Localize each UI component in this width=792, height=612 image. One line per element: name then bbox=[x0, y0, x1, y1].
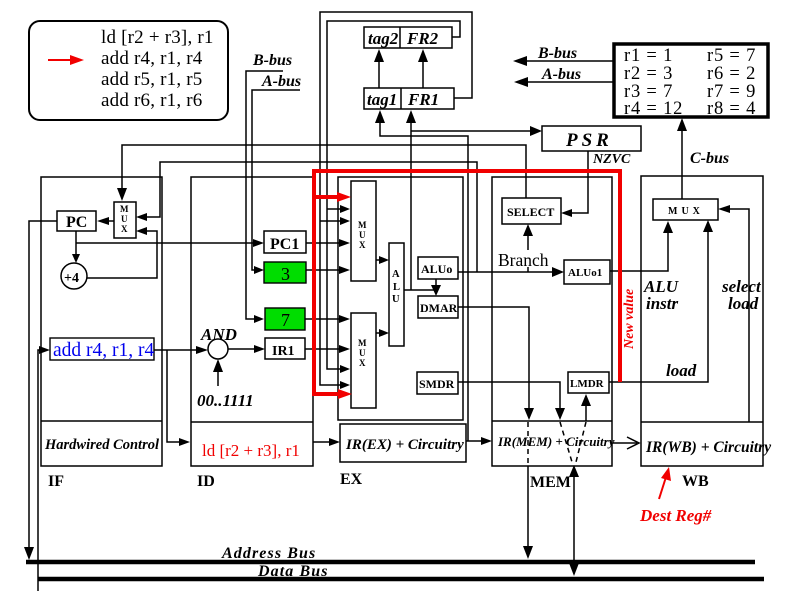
wire FR1 to FR2 bbox=[418, 49, 428, 88]
svg-text:add r5, r1, r5: add r5, r1, r5 bbox=[101, 69, 202, 90]
WB stage rectangle bbox=[641, 176, 771, 466]
label New value bbox=[622, 289, 637, 350]
label ID bbox=[197, 473, 215, 490]
register LMDR bbox=[568, 372, 609, 393]
svg-text:ALUo: ALUo bbox=[421, 262, 452, 276]
wire ALUo1 result to WB mux bbox=[610, 221, 673, 271]
PC mux bbox=[114, 202, 136, 238]
wire FR2 branch to EX mux1 bbox=[327, 205, 350, 213]
label Dest Reg# bbox=[639, 506, 712, 525]
wire branch condition up to SELECT bbox=[523, 224, 533, 272]
register ALUo1 bbox=[564, 260, 610, 284]
svg-text:ID: ID bbox=[197, 473, 215, 490]
label WB bbox=[682, 473, 709, 490]
Data Bus bbox=[38, 563, 764, 580]
svg-text:New value: New value bbox=[622, 289, 637, 350]
label A-bus (left) bbox=[261, 73, 301, 90]
register ALUo bbox=[418, 257, 458, 279]
svg-text:B-bus: B-bus bbox=[537, 45, 577, 62]
wire PC down to +4 bbox=[72, 231, 80, 263]
svg-text:r2 = 3: r2 = 3 bbox=[624, 64, 673, 84]
IR(EX) circuitry box bbox=[340, 424, 466, 462]
svg-text:U: U bbox=[392, 294, 400, 305]
svg-text:add r4, r1, r4: add r4, r1, r4 bbox=[53, 340, 155, 361]
svg-text:U: U bbox=[121, 214, 128, 224]
wire DMAR to address path bbox=[458, 307, 534, 420]
label 00..1111 bbox=[197, 391, 254, 410]
label B-bus (left) bbox=[252, 52, 292, 69]
label Hardwired Control bbox=[44, 437, 159, 453]
wire FR1 branch to EX mux1 bbox=[320, 217, 350, 225]
svg-text:add r4, r1, r4: add r4, r1, r4 bbox=[101, 48, 203, 69]
wire ALU result to PSR bbox=[411, 126, 542, 136]
svg-text:U: U bbox=[359, 230, 366, 240]
svg-text:Branch: Branch bbox=[498, 250, 549, 270]
svg-text:NZVC: NZVC bbox=[592, 152, 631, 167]
wire latch 3 to EX mux1 bbox=[306, 266, 350, 274]
WB result mux bbox=[653, 199, 718, 220]
register IR1 bbox=[265, 338, 305, 359]
svg-text:MEM: MEM bbox=[530, 474, 571, 491]
svg-text:DMAR: DMAR bbox=[420, 301, 458, 315]
wire dest-reg tag from IR(EX) to tag1 bbox=[375, 110, 468, 441]
register PC1 bbox=[264, 231, 306, 253]
open arrow IR(MEM) to IR(WB) bbox=[613, 437, 639, 449]
label select load bbox=[721, 277, 762, 313]
label Branch bbox=[495, 250, 555, 270]
wire PC mux to PC bbox=[97, 217, 114, 225]
wire data bus connection bidirectional bbox=[569, 465, 579, 576]
wire PC to address bus bbox=[24, 221, 57, 560]
wire instruction from data bus to IF latch bbox=[38, 346, 50, 591]
operand latch 7 bbox=[265, 308, 305, 330]
svg-text:r6 = 2: r6 = 2 bbox=[707, 64, 756, 84]
wire branch-select from SELECT to PC mux bbox=[117, 145, 526, 201]
label NZVC bbox=[592, 152, 631, 167]
wire mask into AND gate bbox=[213, 359, 223, 386]
svg-text:X: X bbox=[359, 358, 366, 368]
svg-text:r8 = 4: r8 = 4 bbox=[707, 99, 756, 119]
wire ALUo to ALUo1 bbox=[458, 267, 564, 277]
register DMAR bbox=[418, 296, 458, 318]
svg-text:WB: WB bbox=[682, 473, 709, 490]
wire A-bus out of register file bbox=[514, 66, 614, 87]
svg-text:IR(WB) + Circuitry: IR(WB) + Circuitry bbox=[645, 439, 771, 456]
wire PC value to PC1 bbox=[76, 239, 264, 247]
wire instruction down to ID circuitry bbox=[167, 350, 190, 446]
svg-text:7: 7 bbox=[281, 310, 290, 330]
svg-text:Hardwired Control: Hardwired Control bbox=[44, 437, 159, 453]
wire C-bus from WB mux to register file bbox=[677, 118, 687, 199]
svg-text:FR2: FR2 bbox=[406, 29, 439, 48]
wire instruction to AND gate bbox=[154, 346, 208, 354]
svg-text:LMDR: LMDR bbox=[570, 378, 605, 390]
wire AND to IR1 bbox=[228, 345, 265, 353]
svg-text:3: 3 bbox=[281, 264, 290, 284]
wire LMDR input from circuitry bbox=[581, 394, 591, 421]
wire +4 loop back to PC mux bbox=[87, 227, 157, 278]
wire SMDR to data path bbox=[458, 382, 565, 420]
wire ID to IR(EX) bbox=[313, 438, 340, 446]
svg-text:IR(EX) + Circuitry: IR(EX) + Circuitry bbox=[345, 437, 464, 453]
svg-text:MUX: MUX bbox=[668, 206, 704, 217]
wire IR(EX) to IR(MEM) bbox=[466, 437, 492, 445]
svg-text:load: load bbox=[728, 294, 759, 313]
svg-text:M: M bbox=[358, 220, 367, 230]
label MEM bbox=[530, 474, 571, 491]
svg-text:M: M bbox=[120, 204, 129, 214]
IF stage rectangle bbox=[41, 177, 162, 466]
svg-text:IR1: IR1 bbox=[272, 344, 295, 359]
label AND bbox=[200, 325, 237, 344]
instruction legend box bbox=[29, 21, 228, 120]
wire FR2 loop to EX mux2 bbox=[327, 21, 460, 373]
svg-text:+4: +4 bbox=[64, 271, 79, 286]
wire LMDR load value to WB mux bbox=[609, 220, 713, 382]
wire FR1 loop to EX mux2 bbox=[320, 12, 472, 389]
svg-text:load: load bbox=[666, 361, 697, 380]
ID stage rectangle bbox=[191, 177, 313, 466]
MEM stage rectangle bbox=[492, 177, 615, 466]
wire select-load control to WB mux bbox=[718, 205, 749, 422]
svg-text:00..1111: 00..1111 bbox=[197, 391, 254, 410]
svg-text:ld [r2 + r3], r1: ld [r2 + r3], r1 bbox=[202, 441, 300, 460]
label ALU instr bbox=[643, 277, 679, 313]
svg-text:ld [r2 + r3], r1: ld [r2 + r3], r1 bbox=[101, 27, 214, 48]
Address Bus bbox=[26, 545, 755, 562]
svg-text:add r6, r1, r6: add r6, r1, r6 bbox=[101, 90, 202, 111]
svg-text:EX: EX bbox=[340, 471, 363, 488]
wire B-bus to latch 7 bbox=[246, 71, 283, 323]
svg-text:L: L bbox=[393, 282, 400, 293]
svg-text:M: M bbox=[358, 338, 367, 348]
svg-text:ALUo1: ALUo1 bbox=[568, 267, 602, 279]
svg-text:r1 = 1: r1 = 1 bbox=[624, 46, 673, 66]
svg-text:B-bus: B-bus bbox=[252, 52, 292, 69]
red forwarding arrow into mux1 bbox=[314, 192, 351, 202]
EX stage rectangle bbox=[338, 177, 463, 420]
svg-text:SELECT: SELECT bbox=[507, 205, 554, 219]
ALU bbox=[389, 243, 404, 346]
svg-text:IF: IF bbox=[48, 473, 64, 490]
SELECT logic box bbox=[502, 198, 561, 224]
wire ALU output node bbox=[404, 289, 436, 291]
forwarding register FR2 / tag2 bbox=[364, 27, 452, 48]
wire A-bus to latch 3 bbox=[252, 90, 300, 274]
svg-text:Dest Reg#: Dest Reg# bbox=[639, 506, 712, 525]
svg-text:tag2: tag2 bbox=[368, 29, 399, 48]
svg-text:A-bus: A-bus bbox=[261, 73, 301, 90]
svg-text:PC1: PC1 bbox=[270, 236, 299, 253]
svg-text:Address Bus: Address Bus bbox=[221, 545, 316, 562]
svg-text:SMDR: SMDR bbox=[419, 377, 455, 391]
svg-text:Data Bus: Data Bus bbox=[257, 563, 329, 580]
register SMDR bbox=[417, 372, 458, 394]
svg-text:FR1: FR1 bbox=[407, 90, 439, 109]
label C-bus bbox=[690, 150, 729, 167]
PSR box bbox=[542, 126, 641, 151]
register file bbox=[614, 44, 768, 119]
wire mux1 to ALU bbox=[376, 256, 389, 264]
red forwarding path new value bbox=[314, 171, 620, 399]
operand latch 3 bbox=[264, 262, 306, 284]
PC register bbox=[57, 211, 96, 231]
svg-text:r5 = 7: r5 = 7 bbox=[707, 46, 756, 66]
svg-text:X: X bbox=[121, 224, 128, 234]
EX operand mux2 bbox=[351, 313, 376, 408]
label load bbox=[666, 361, 697, 380]
svg-text:A-bus: A-bus bbox=[541, 66, 581, 83]
wire latch 7 to EX mux2 bbox=[305, 315, 350, 323]
svg-text:tag1: tag1 bbox=[367, 90, 397, 109]
wire ALUo to DMAR bbox=[431, 279, 441, 296]
svg-text:U: U bbox=[359, 348, 366, 358]
EX operand mux1 bbox=[351, 181, 376, 281]
dashed store-data path through circuitry bbox=[560, 422, 572, 462]
dashed address path through circuitry bbox=[527, 422, 529, 465]
label IF bbox=[48, 473, 64, 490]
IF latched instruction add r4,r1,r4 bbox=[50, 338, 155, 361]
svg-text:IR(MEM) + Circuitry: IR(MEM) + Circuitry bbox=[497, 434, 615, 449]
forwarding register FR1 / tag1 bbox=[364, 88, 454, 109]
wire mux2 to ALU bbox=[376, 329, 389, 337]
AND gate bbox=[208, 339, 228, 359]
svg-text:instr: instr bbox=[646, 294, 679, 313]
wire B-bus out of register file bbox=[513, 45, 614, 66]
svg-text:X: X bbox=[359, 240, 366, 250]
ID current instruction ld [r2 + r3], r1 bbox=[202, 441, 300, 460]
wire IR1 to EX mux2 bbox=[305, 345, 350, 353]
red arrow Dest Reg# to WB bbox=[659, 467, 671, 499]
svg-text:r4 = 12: r4 = 12 bbox=[624, 99, 683, 119]
wire address to address bus bbox=[523, 466, 533, 559]
wire ALU result to FR1 bbox=[406, 110, 416, 290]
svg-text:PC: PC bbox=[66, 214, 87, 231]
wire NZVC from PSR to SELECT bbox=[561, 151, 588, 217]
svg-text:AND: AND bbox=[200, 325, 237, 344]
svg-text:C-bus: C-bus bbox=[690, 150, 729, 167]
svg-text:A: A bbox=[392, 269, 400, 280]
red current-instruction arrow bbox=[48, 55, 84, 65]
wire branch target from ALUo to PC mux bbox=[136, 162, 477, 272]
dashed load-data path through circuitry bbox=[576, 422, 586, 462]
incrementer +4 bbox=[61, 263, 87, 289]
label EX bbox=[340, 471, 363, 488]
svg-text:PSR: PSR bbox=[565, 130, 613, 151]
wire tag1 to tag2 bbox=[374, 49, 384, 88]
wire PC1 to EX mux1 bbox=[306, 239, 350, 247]
